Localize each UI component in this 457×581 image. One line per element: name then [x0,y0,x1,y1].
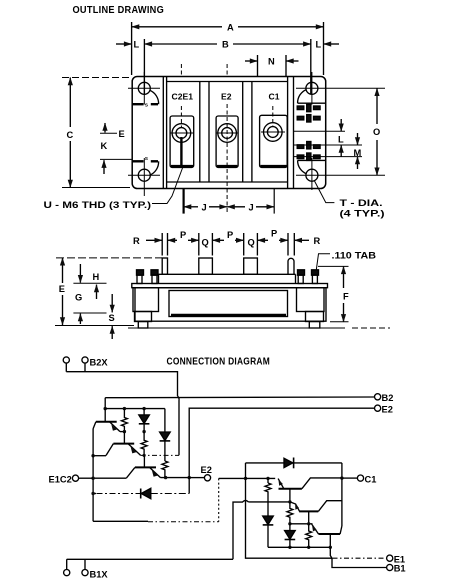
wire B2X [66,363,177,396]
dimension B [144,39,310,94]
diode D4 freewheel (right block) [246,458,342,479]
node B1 rail [329,546,332,549]
wire Q3 collector to E1C2 [93,477,126,479]
transistor Q3 [126,467,160,478]
module outline (top view) [132,77,326,189]
svg-text:O: O [373,127,380,137]
wire E1 drop [246,478,333,558]
diode D3 reverse (left block) [91,478,189,499]
dimension C [62,78,130,188]
node Q1 base rail junction [104,407,107,410]
terminal E1C2 [49,474,94,484]
wire Q2 collector to C2 rail [93,455,106,457]
wire E1 dash to terminal [333,557,387,559]
diode D6 corner column [263,478,274,547]
terminal block C2E1 [170,92,194,168]
svg-text:E: E [59,284,65,294]
dimension L right [316,40,340,50]
mounting hole top-left [128,72,160,105]
svg-text:E2: E2 [201,465,212,475]
svg-text:A: A [227,23,234,33]
dimension R left [133,233,168,256]
node freewheel anode [244,477,247,480]
svg-text:M: M [354,148,362,158]
svg-text:OUTLINE DRAWING: OUTLINE DRAWING [73,5,165,16]
node E2 riser [188,476,191,479]
node Q5 base junction [307,522,310,525]
baseplate window [169,291,288,317]
body rib lines [199,82,201,183]
svg-text:S: S [145,156,149,162]
svg-text:L: L [338,135,344,145]
node R5 bottom [307,546,310,549]
left tower [133,288,159,312]
pad row E2 [297,115,320,122]
label T-DIA with leader [315,181,385,219]
dimension J first [184,203,228,213]
terminal B1X [64,570,109,580]
svg-text:J: J [249,203,254,213]
svg-text:L: L [316,40,322,50]
pad row E1 [297,142,320,149]
faston tab 3 [244,258,258,274]
wire B1 rail [268,546,330,548]
pad row line M top [294,144,363,146]
wire Q3 base drop [143,455,145,467]
terminal B2 [375,393,394,403]
terminal block E2 [216,92,238,168]
node R1 top [123,407,126,410]
svg-text:E2: E2 [382,404,393,414]
diode D5 [285,524,296,548]
wire E1 net to right block [246,477,276,479]
dimension R right [294,233,320,256]
wire E2 line [161,477,190,479]
pad row B2 [297,104,320,111]
label U-M6 THD with leader [44,168,183,210]
node D1 top [142,407,145,410]
faston tab 2 [199,258,213,274]
node Q3 base [143,454,146,457]
side body main [135,288,326,322]
dimension J right extension [273,189,275,214]
right foot [306,312,324,322]
svg-text:K: K [101,141,108,151]
side deck top [159,273,296,275]
faston tab 1 [162,258,167,274]
right screw 1 [298,270,305,284]
body section line left pair [162,77,164,189]
dimension P2 [212,230,243,256]
dimension Q2 [248,233,258,256]
body section line right pair [287,77,289,189]
svg-text:J: J [202,203,207,213]
pad column line L [294,130,346,132]
svg-text:C: C [67,130,74,140]
resistor R1 [121,409,127,432]
svg-text:B1: B1 [394,564,406,574]
wire base rail [105,408,165,410]
wire Q5 base line [290,523,313,525]
resistor R4 [287,502,293,524]
terminal E1 [387,554,405,564]
node Q4 base [288,500,291,503]
left screw 1 [137,270,144,284]
side body flange [132,284,328,288]
svg-text:Q: Q [248,238,255,248]
dimension S (side view) [109,294,115,339]
wire Q1 emitter to Q2 base [120,431,124,433]
screw centerlines [181,64,272,214]
terminal block C1 [260,92,288,168]
node corner column top [266,477,269,480]
screw center cross marks [170,132,285,133]
resistor R5 [306,524,312,548]
dimension P3 [257,229,288,256]
node Q2 collector [91,454,94,457]
resistor R3 [162,461,168,478]
dimension E (side view) [55,258,162,326]
svg-text:R: R [133,236,140,246]
dimension Q1 [202,233,213,256]
node R3 bottom [164,476,167,479]
dimension P1 [168,230,199,256]
wire B2X drop with hop [178,396,180,455]
terminal C1 [342,474,376,484]
ear edge S mark top-left [132,102,158,108]
svg-text:R: R [314,236,321,246]
svg-text:CONNECTION DIAGRAM: CONNECTION DIAGRAM [167,357,271,368]
dimension G [73,293,106,325]
faston tab 4 [288,258,294,274]
dimension N [245,55,299,76]
svg-text:C1: C1 [365,474,377,484]
resistor R2 [141,432,147,456]
wire E2 stub to circle [189,477,204,479]
node C1 [340,476,343,479]
right tower [297,288,325,312]
body top inner line [167,81,288,83]
svg-text:E2: E2 [221,92,232,102]
svg-text:U - M6 THD (3 TYP.): U - M6 THD (3 TYP.) [44,200,152,210]
wire B2 to base rail [104,398,106,409]
dimension E (left) [100,123,125,139]
dimension K [100,141,132,174]
terminal B1 [387,564,406,574]
ear edge S mark bottom-left [132,156,158,162]
svg-text:B2: B2 [382,393,394,403]
dimension O [373,88,380,175]
svg-text:P: P [180,230,186,240]
left screw 2 [151,270,158,284]
svg-text:(4 TYP.): (4 TYP.) [340,209,385,219]
terminal B2X [63,357,108,368]
terminal E2 top [375,404,393,414]
svg-text:C2E1: C2E1 [172,92,194,102]
svg-text:P: P [227,230,233,240]
transistor Q5 [290,501,342,524]
node Q5 base line left [288,522,291,525]
dimension A [132,22,324,75]
wire B2 rail [105,396,374,399]
diode D1 [139,409,150,432]
wire B1X riser with hop [233,500,249,558]
wire E1 link line [93,478,245,521]
node D5 bottom [288,546,291,549]
mounting hole bottom-left [128,158,160,196]
terminal E2 mid [201,465,212,481]
transistor Q2 [106,444,141,456]
svg-text:B2X: B2X [90,358,109,368]
dimension J second [227,203,274,213]
svg-text:B: B [222,40,229,50]
transistor Q6 [312,524,342,547]
pad row B1 [297,153,320,160]
dimension J left extension [183,189,185,214]
seating plane line [128,327,345,329]
mounting hole bottom-right [296,158,385,190]
svg-text:G: G [75,293,82,303]
svg-text:B1X: B1X [90,570,109,580]
svg-text:.110 TAB: .110 TAB [332,251,377,261]
svg-text:L: L [134,40,140,50]
svg-text:Q: Q [202,238,209,248]
dimension F [318,266,349,321]
wire B1X rail [67,559,233,570]
node D1 bottom [142,430,145,433]
transistor Q1 [93,409,120,432]
dimension M [354,133,362,169]
pad row line M bottom [294,156,363,158]
svg-text:E1C2: E1C2 [49,474,72,484]
svg-text:E: E [119,129,125,139]
dimension L left [116,40,140,50]
svg-text:S: S [109,313,115,323]
wire Q3 base line (dash) [141,454,180,456]
svg-text:H: H [93,272,100,282]
wire C1 rail [341,463,343,526]
svg-text:S: S [145,102,149,108]
diode D2 [160,409,171,461]
svg-text:C1: C1 [269,92,280,102]
wire Q4 base line [249,501,291,503]
dimension L (right small) [338,119,344,157]
left foot [135,312,152,322]
mounting hole top-right [296,72,385,105]
transistor Q4 [278,478,342,502]
wire B1 drop with hop [330,547,386,567]
svg-text:F: F [343,292,349,302]
wire E2 riser to E2 top terminal [189,408,374,477]
label .110 TAB with leader [316,251,376,273]
body bottom inner line [167,181,288,183]
dimension H [73,264,106,299]
svg-text:P: P [271,229,277,239]
wire C2 rail (E1C2 vertical) [92,429,94,521]
svg-text:T - DIA.: T - DIA. [340,198,383,208]
svg-text:N: N [268,57,275,67]
right screw 2 [312,270,319,284]
